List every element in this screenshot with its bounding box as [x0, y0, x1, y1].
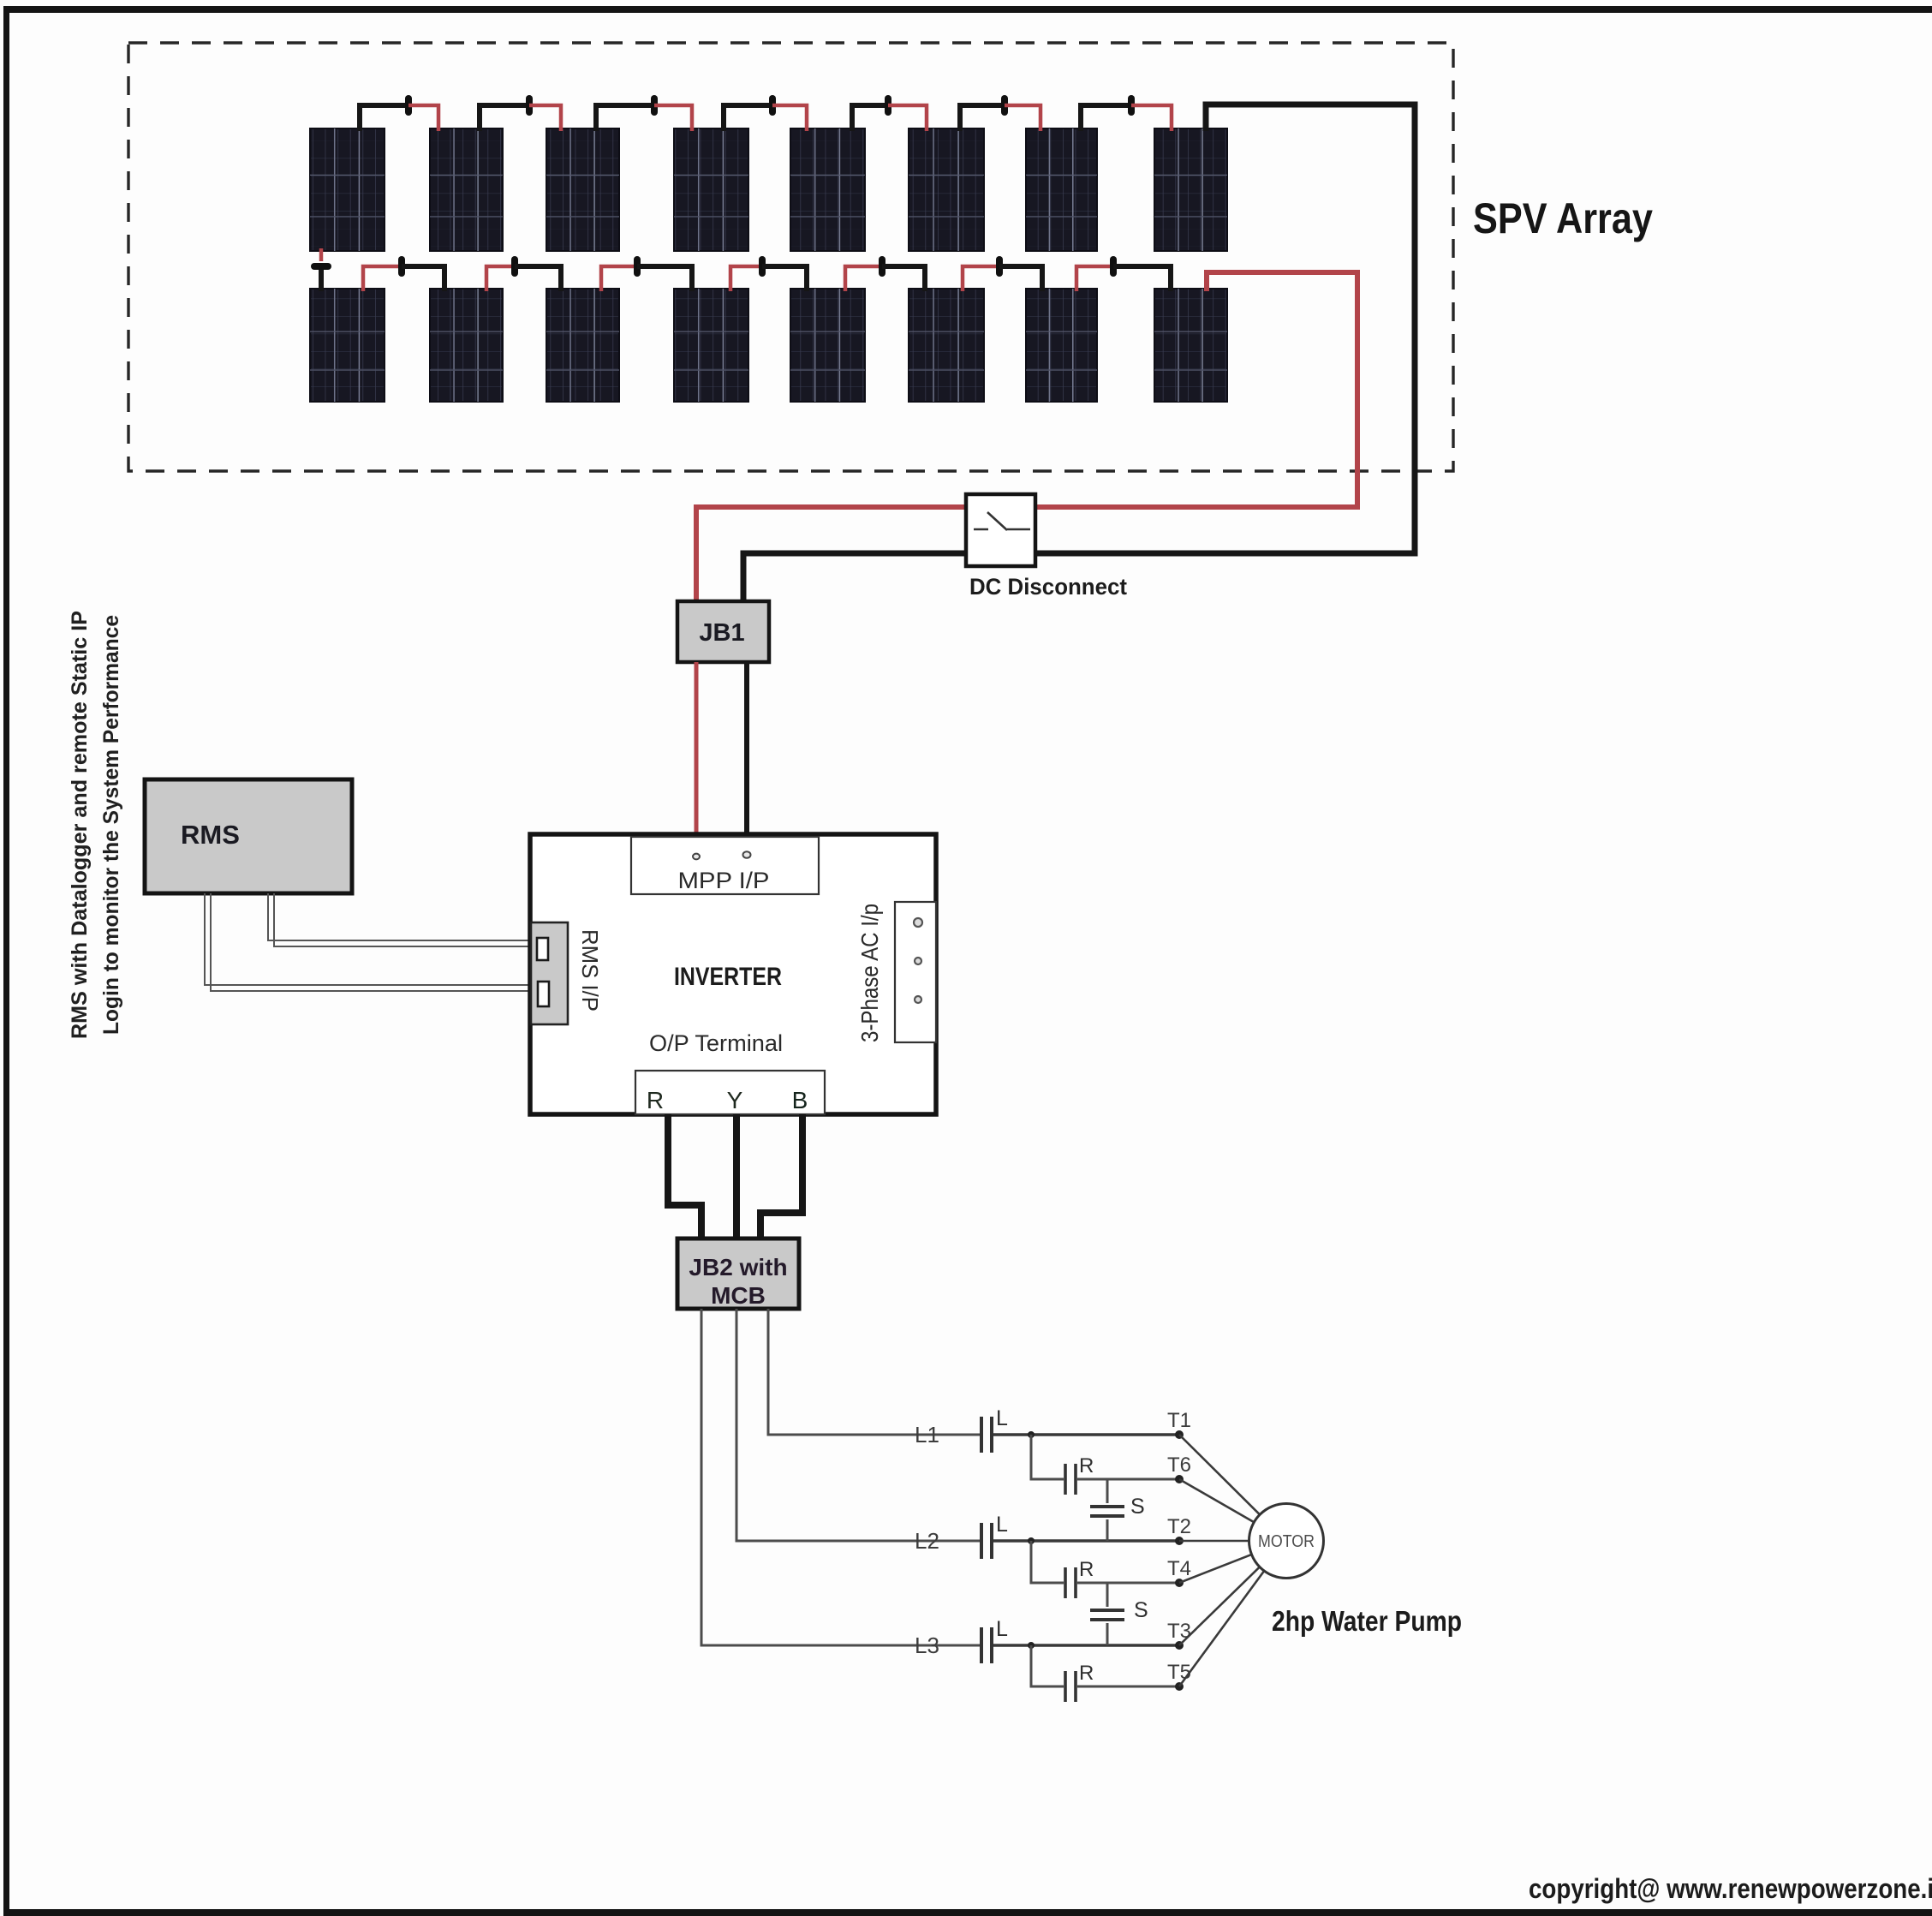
wire: connector J6 to PV7 positive lead (red)	[1005, 105, 1041, 131]
svg-text:copyright@ www.renewpowerzone.: copyright@ www.renewpowerzone.in	[1529, 1873, 1932, 1904]
wire: PV4 negative lead (black) to connector	[724, 105, 772, 131]
wire: inverter output R phase to JB2	[668, 1114, 701, 1240]
junction box JB1	[677, 601, 769, 662]
svg-text:RMS: RMS	[181, 820, 240, 850]
svg-text:T4: T4	[1167, 1557, 1191, 1580]
svg-text:DC Disconnect: DC Disconnect	[969, 574, 1127, 600]
cable: RMS to inverter RMS I/P (lower pair)	[205, 893, 531, 991]
wire: PV12 positive lead (red) to connector	[730, 266, 762, 291]
svg-text:L: L	[996, 1617, 1008, 1641]
solar panel module PV16 (row 2)	[1154, 289, 1227, 402]
MC4 connector J3	[651, 95, 658, 116]
node T5	[1175, 1682, 1184, 1691]
wire: L1 drop to R-branch	[1031, 1435, 1064, 1479]
junction node on L3 line	[1028, 1642, 1035, 1649]
wire: connector J12 to PV14 negative lead (black)	[882, 266, 925, 291]
svg-text:T2: T2	[1167, 1515, 1191, 1538]
wire: R-branch to node T5	[1077, 1686, 1179, 1688]
MC4 connector J9	[511, 256, 518, 277]
wire: R-branch to node T6	[1077, 1478, 1179, 1481]
wire: L3 drop to R-branch	[1031, 1645, 1064, 1686]
svg-text:MOTOR: MOTOR	[1258, 1532, 1315, 1551]
solar panel module PV6 (row 1)	[909, 128, 984, 251]
svg-text:RMS I/P: RMS I/P	[577, 929, 603, 1012]
capacitor L (series, L2 phase)	[981, 1513, 1008, 1559]
solar panel module PV7 (row 1)	[1026, 128, 1097, 251]
wire: PV13 positive lead (red) to connector	[845, 266, 882, 291]
svg-text:T1: T1	[1167, 1409, 1191, 1432]
solar panel module PV14 (row 2)	[909, 289, 984, 402]
wire: inter-row connector down to PV9 top (black)	[319, 270, 324, 291]
wire: connector J3 to PV4 positive lead (red)	[654, 105, 692, 131]
node T4	[1175, 1579, 1184, 1587]
solar panel module PV4 (row 1)	[674, 128, 748, 251]
solar panel module PV10 (row 2)	[430, 289, 503, 402]
dashed SPV array boundary box	[128, 43, 1453, 471]
wire: connector J2 to PV3 positive lead (red)	[529, 105, 561, 131]
wire: R-branch to node T4	[1077, 1582, 1179, 1585]
wire: connector J5 to PV6 positive lead (red)	[888, 105, 927, 131]
wire: T6 to motor	[1179, 1479, 1254, 1522]
wire: connector J9 to PV11 negative lead (black)	[515, 266, 561, 291]
solar panel module PV11 (row 2)	[546, 289, 619, 402]
svg-text:L1: L1	[915, 1422, 939, 1447]
solar panel module PV2 (row 1)	[430, 128, 503, 251]
capacitor R (L1 branch)	[1065, 1454, 1094, 1495]
svg-text:MPP I/P: MPP I/P	[678, 868, 770, 893]
MC4 connector J6	[1001, 95, 1008, 116]
wire: PV15 positive lead (red) to connector	[1076, 266, 1113, 291]
solar panel module PV15 (row 2)	[1026, 289, 1097, 402]
wire: array positive output (red) PV16 to JB1	[696, 272, 1357, 601]
solar panel module PV3 (row 1)	[546, 128, 619, 251]
MPP input pin 1	[693, 854, 700, 860]
svg-text:L: L	[996, 1513, 1008, 1537]
MC4 connector J13	[996, 256, 1003, 277]
solar panel module PV9 (row 2)	[310, 289, 385, 402]
svg-text:MCB: MCB	[711, 1282, 766, 1309]
capacitor R (L2 branch)	[1065, 1558, 1094, 1598]
wire: PV1 negative lead (black) to connector	[360, 105, 408, 131]
DC disconnect switch box	[966, 494, 1035, 566]
MC4 connector J4	[769, 95, 776, 116]
wire: PV14 positive lead (red) to connector	[963, 266, 999, 291]
svg-text:L3: L3	[915, 1632, 939, 1658]
MC4 connector J14	[1110, 256, 1117, 277]
wire: connector J10 to PV12 negative lead (black)	[637, 266, 692, 291]
solar panel module PV1 (row 1)	[310, 128, 385, 251]
wire: T5 to motor	[1179, 1571, 1264, 1686]
MC4 connector J10	[634, 256, 641, 277]
wire: PV2 negative lead (black) to connector	[480, 105, 529, 131]
node T6	[1175, 1475, 1184, 1483]
junction box JB2 with MCB	[677, 1239, 799, 1309]
wire: PV1 bottom (red) down to inter-row connector	[319, 248, 324, 261]
node T3	[1175, 1641, 1184, 1650]
svg-text:T5: T5	[1167, 1661, 1191, 1684]
wire: PV3 negative lead (black) to connector	[596, 105, 654, 131]
MC4 connector J12	[879, 256, 885, 277]
svg-text:RMS with Datalogger and remote: RMS with Datalogger and remote Static IP	[68, 611, 92, 1039]
capacitor R (L3 branch)	[1065, 1662, 1094, 1702]
wire: PV5 negative lead (black) to connector	[852, 105, 888, 131]
MC4 connector J7	[1128, 95, 1135, 116]
svg-text:SPV Array: SPV Array	[1473, 194, 1653, 242]
O/P terminal box	[635, 1071, 825, 1114]
node T1	[1175, 1430, 1184, 1439]
wire: JB1 to inverter MPP input (red, DC+)	[695, 662, 699, 834]
svg-text:Login to monitor the System Pe: Login to monitor the System Performance	[99, 615, 123, 1035]
wire: T2 to motor	[1179, 1540, 1249, 1543]
capacitor S (between L2 and L3 branches)	[1090, 1583, 1148, 1645]
wire: PV7 negative lead (black) to connector	[1081, 105, 1131, 131]
wire: connector J7 to PV8 positive lead (red)	[1131, 105, 1172, 131]
junction node on L1 line	[1028, 1431, 1035, 1438]
svg-text:JB2 with: JB2 with	[689, 1254, 787, 1280]
solar panel module PV5 (row 1)	[790, 128, 865, 251]
wire: PV6 negative lead (black) to connector	[960, 105, 1005, 131]
MC4 connector J1	[405, 95, 412, 116]
node T2	[1175, 1537, 1184, 1545]
wire: T1 to motor	[1179, 1435, 1260, 1514]
wire: inverter output B phase to JB2	[760, 1114, 802, 1240]
wire: JB2 to L2 line	[736, 1309, 980, 1541]
solar panel module PV13 (row 2)	[790, 289, 865, 402]
RMS I/P terminal block (gray)	[531, 922, 568, 1024]
svg-text:JB1: JB1	[699, 619, 744, 647]
wire: JB2 to L3 line	[701, 1309, 980, 1645]
MC4 connector J11	[759, 256, 766, 277]
svg-text:T3: T3	[1167, 1620, 1191, 1643]
MC4 connector J8	[398, 256, 405, 277]
svg-text:O/P Terminal: O/P Terminal	[649, 1030, 783, 1056]
capacitor S (between L1 and L2 branches)	[1090, 1479, 1145, 1541]
cable: RMS to inverter RMS I/P (upper pair)	[268, 893, 531, 946]
svg-text:3-Phase AC I/p: 3-Phase AC I/p	[856, 904, 883, 1042]
MPP input terminal box	[631, 837, 819, 894]
svg-text:R: R	[1079, 1454, 1094, 1477]
wire: L1 line from capacitor to node T1	[993, 1433, 1179, 1436]
svg-text:B: B	[792, 1087, 808, 1113]
motor M1 (2hp water pump)	[1249, 1504, 1324, 1579]
wire: array negative output (black) PV8 to DC disconnect and JB1	[743, 104, 1415, 601]
wire: T4 to motor	[1179, 1555, 1252, 1583]
3-phase AC input terminal box	[895, 902, 936, 1042]
MC4 connector J15 (inter-row)	[311, 263, 331, 270]
svg-text:2hp Water Pump: 2hp Water Pump	[1272, 1605, 1462, 1637]
svg-text:T6: T6	[1167, 1453, 1191, 1477]
wire: PV11 positive lead (red) to connector	[601, 266, 637, 291]
svg-text:R: R	[647, 1087, 664, 1113]
capacitor L (series, L3 phase)	[981, 1617, 1008, 1663]
wire: PV9 positive lead (red) to connector	[363, 266, 402, 291]
wire: JB1 to inverter MPP input (black, DC-)	[744, 662, 749, 834]
svg-text:L: L	[996, 1406, 1008, 1430]
wire: T3 to motor	[1179, 1567, 1260, 1645]
wire: connector J11 to PV13 negative lead (black)	[762, 266, 807, 291]
wire: connector J1 to PV2 positive lead (red)	[408, 105, 438, 131]
junction node on L2 line	[1028, 1537, 1035, 1544]
RMS datalogger box	[145, 779, 352, 893]
wire: L2 drop to R-branch	[1031, 1541, 1064, 1583]
svg-text:R: R	[1079, 1662, 1094, 1685]
inverter box	[530, 834, 936, 1114]
wire: L3 line from capacitor to node T3	[993, 1644, 1179, 1646]
wire: JB2 to L1 line	[768, 1309, 980, 1435]
MC4 connector J2	[526, 95, 533, 116]
wire: connector J8 to PV10 negative lead (black)	[402, 266, 444, 291]
MC4 connector J5	[885, 95, 891, 116]
wire: connector J14 to PV16 negative lead (black)	[1113, 266, 1171, 291]
wire: L2 line from capacitor to node T2	[993, 1539, 1179, 1542]
MPP input pin 2	[743, 851, 751, 858]
svg-text:R: R	[1079, 1558, 1094, 1581]
svg-text:S: S	[1130, 1495, 1145, 1519]
svg-text:L2: L2	[915, 1528, 939, 1554]
wire: PV10 positive lead (red) to connector	[486, 266, 515, 291]
solar panel module PV8 (row 1)	[1154, 128, 1227, 251]
svg-text:S: S	[1134, 1598, 1148, 1622]
wire: connector J13 to PV15 negative lead (black)	[999, 266, 1042, 291]
wire: connector J4 to PV5 positive lead (red)	[772, 105, 807, 131]
capacitor L (series, L1 phase)	[981, 1406, 1008, 1453]
svg-text:INVERTER: INVERTER	[674, 963, 782, 991]
solar panel module PV12 (row 2)	[674, 289, 748, 402]
svg-text:Y: Y	[727, 1087, 743, 1113]
wire: inverter output Y phase to JB2	[733, 1114, 740, 1240]
